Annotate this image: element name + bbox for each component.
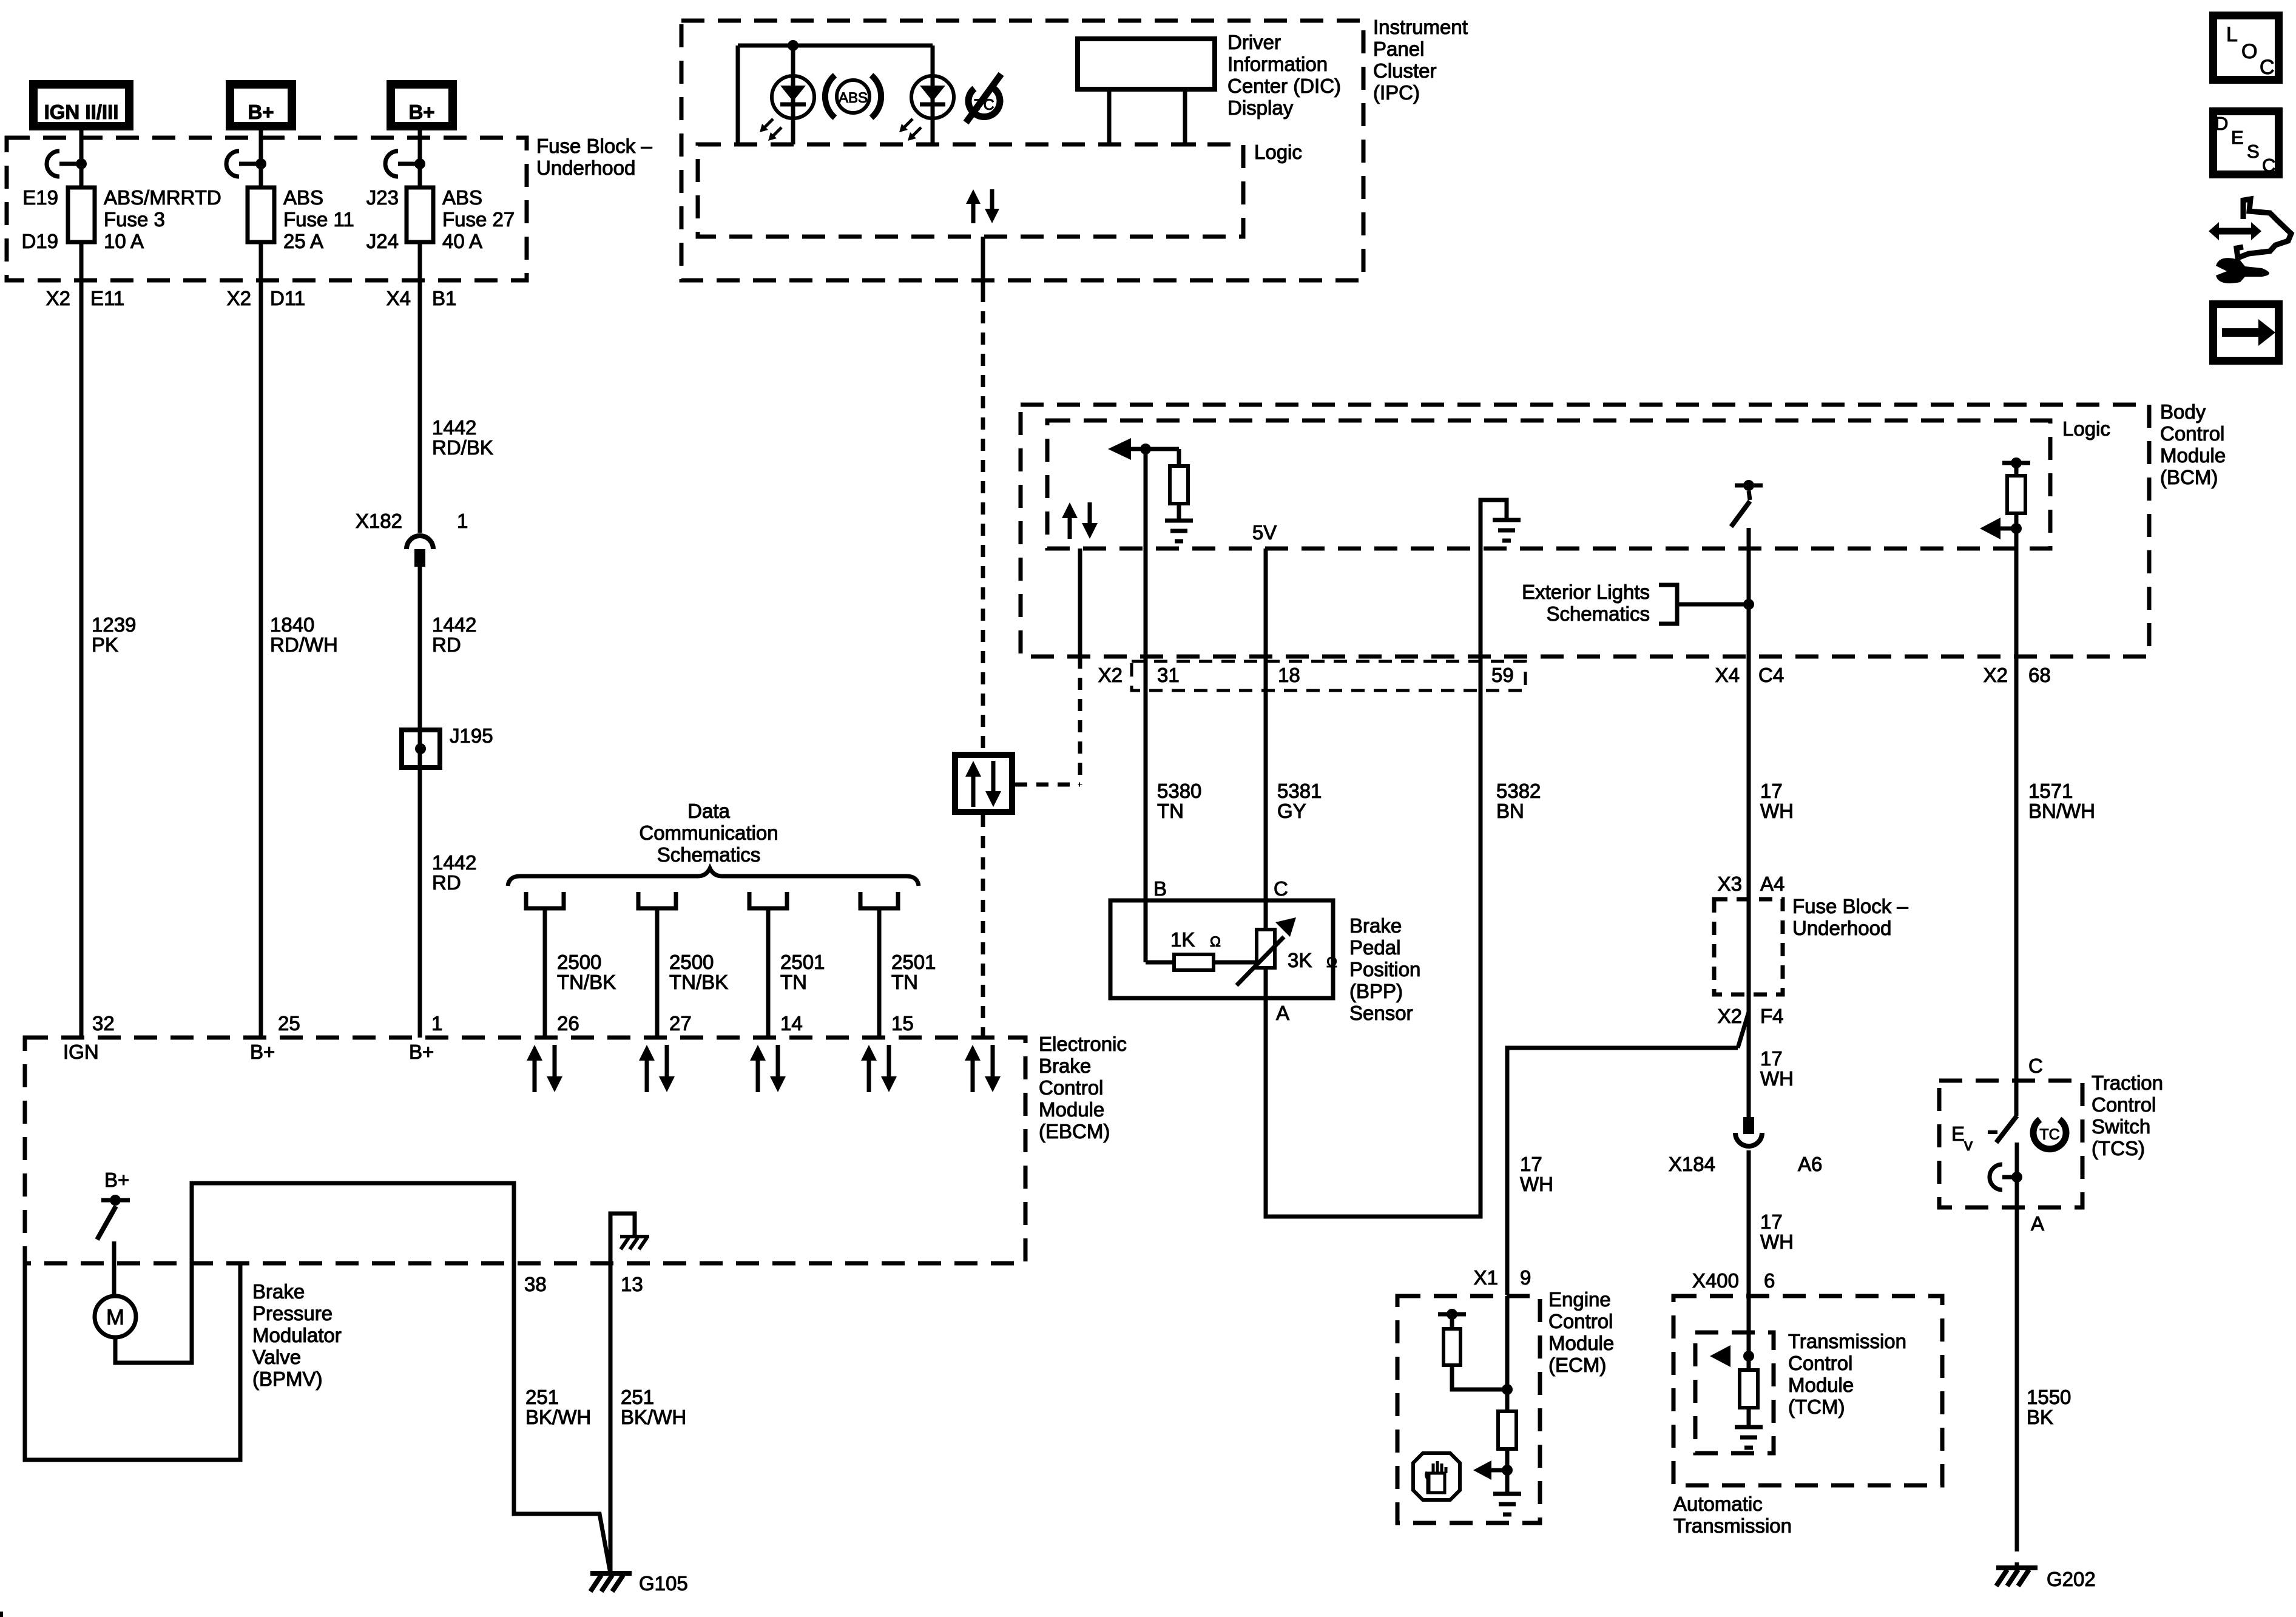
svg-text:Pedal: Pedal: [1349, 936, 1400, 959]
svg-text:2500: 2500: [669, 951, 714, 973]
svg-text:Control: Control: [1548, 1310, 1613, 1332]
svg-text:Valve: Valve: [252, 1346, 301, 1368]
svg-text:B: B: [1153, 877, 1167, 900]
svg-text:Electronic: Electronic: [1039, 1033, 1127, 1055]
svg-text:13: 13: [621, 1273, 643, 1295]
svg-text:Pressure: Pressure: [252, 1302, 333, 1325]
svg-text:D: D: [2215, 113, 2228, 134]
svg-text:X4: X4: [1715, 664, 1740, 686]
svg-text:1K: 1K: [1170, 928, 1195, 951]
svg-text:1239: 1239: [92, 613, 136, 636]
svg-text:1840: 1840: [270, 613, 314, 636]
svg-text:25: 25: [278, 1012, 300, 1035]
svg-text:Fuse Block –: Fuse Block –: [1792, 895, 1908, 917]
svg-text:D19: D19: [21, 230, 58, 252]
svg-text:17: 17: [1760, 780, 1783, 802]
svg-text:10 A: 10 A: [104, 230, 144, 252]
svg-text:L: L: [2226, 23, 2238, 46]
svg-text:Control: Control: [1788, 1352, 1852, 1374]
svg-text:E11: E11: [90, 287, 124, 309]
svg-text:X2: X2: [1718, 1005, 1742, 1027]
svg-text:Panel: Panel: [1373, 38, 1424, 60]
svg-text:Logic: Logic: [1254, 141, 1302, 163]
svg-text:Logic: Logic: [2062, 417, 2110, 440]
svg-text:Module: Module: [1788, 1374, 1854, 1396]
svg-text:1442: 1442: [432, 416, 476, 439]
svg-text:C: C: [1274, 877, 1288, 900]
svg-text:X182: X182: [356, 510, 402, 532]
svg-text:3K: 3K: [1288, 949, 1312, 971]
svg-text:(ECM): (ECM): [1548, 1354, 1606, 1376]
svg-text:G105: G105: [639, 1572, 688, 1595]
svg-text:5381: 5381: [1277, 780, 1322, 802]
svg-text:Center (DIC): Center (DIC): [1227, 75, 1341, 97]
svg-text:Module: Module: [1548, 1332, 1614, 1354]
svg-text:1442: 1442: [432, 851, 476, 874]
svg-text:WH: WH: [1760, 1067, 1794, 1090]
svg-text:G202: G202: [2047, 1568, 2096, 1590]
svg-text:ABS: ABS: [283, 186, 323, 209]
svg-text:BN/WH: BN/WH: [2028, 800, 2095, 822]
svg-text:B+: B+: [408, 101, 434, 123]
svg-text:GY: GY: [1277, 800, 1306, 822]
svg-text:(BPP): (BPP): [1349, 980, 1403, 1002]
svg-text:X2: X2: [1098, 664, 1123, 686]
svg-text:Brake: Brake: [252, 1280, 305, 1303]
svg-text:25 A: 25 A: [283, 230, 323, 252]
svg-text:O: O: [2241, 40, 2257, 63]
svg-text:Ω: Ω: [1326, 954, 1337, 971]
svg-text:Fuse Block –: Fuse Block –: [536, 135, 652, 157]
svg-text:2501: 2501: [780, 951, 825, 973]
svg-text:6: 6: [1764, 1269, 1775, 1292]
svg-text:1442: 1442: [432, 613, 476, 636]
svg-text:B+: B+: [248, 101, 274, 123]
svg-text:2500: 2500: [557, 951, 601, 973]
svg-text:RD: RD: [432, 633, 461, 656]
svg-text:Underhood: Underhood: [1792, 917, 1891, 939]
svg-text:B1: B1: [432, 287, 456, 309]
svg-text:Information: Information: [1227, 53, 1328, 75]
svg-text:ABS: ABS: [839, 90, 868, 106]
svg-text:TN: TN: [891, 971, 918, 993]
svg-text:ABS/MRRTD: ABS/MRRTD: [104, 186, 221, 209]
svg-text:B+: B+: [250, 1041, 275, 1063]
svg-text:A: A: [1276, 1002, 1289, 1024]
svg-text:J23: J23: [366, 186, 399, 209]
svg-text:Sensor: Sensor: [1349, 1002, 1413, 1024]
svg-text:X2: X2: [1984, 664, 2008, 686]
svg-text:(EBCM): (EBCM): [1039, 1120, 1110, 1143]
svg-text:X184: X184: [1669, 1153, 1715, 1175]
svg-text:E: E: [2231, 127, 2244, 148]
svg-text:Switch: Switch: [2092, 1115, 2150, 1138]
svg-text:Transmission: Transmission: [1673, 1514, 1792, 1537]
svg-text:A: A: [2031, 1212, 2044, 1235]
svg-text:32: 32: [92, 1012, 115, 1035]
svg-text:F4: F4: [1760, 1005, 1784, 1027]
svg-text:Brake: Brake: [1039, 1055, 1091, 1077]
svg-text:A6: A6: [1798, 1153, 1822, 1175]
svg-text:Display: Display: [1227, 96, 1294, 119]
svg-text:(BPMV): (BPMV): [252, 1368, 323, 1390]
svg-text:X400: X400: [1692, 1269, 1739, 1292]
svg-text:17: 17: [1760, 1210, 1783, 1233]
svg-text:Data: Data: [687, 800, 730, 822]
svg-text:17: 17: [1760, 1047, 1783, 1070]
svg-text:Modulator: Modulator: [252, 1324, 342, 1346]
svg-text:Driver: Driver: [1227, 31, 1281, 53]
svg-text:TN: TN: [1157, 800, 1184, 822]
svg-text:Module: Module: [2160, 444, 2226, 467]
svg-text:WH: WH: [1520, 1173, 1553, 1195]
svg-text:Fuse 3: Fuse 3: [104, 208, 165, 231]
svg-text:J24: J24: [366, 230, 399, 252]
svg-text:14: 14: [780, 1012, 803, 1035]
svg-text:1550: 1550: [2027, 1386, 2071, 1408]
svg-text:17: 17: [1520, 1153, 1542, 1175]
svg-text:15: 15: [891, 1012, 914, 1035]
svg-text:Fuse 11: Fuse 11: [283, 208, 354, 231]
svg-text:27: 27: [669, 1012, 692, 1035]
svg-text:Control: Control: [2092, 1093, 2156, 1116]
svg-text:1: 1: [431, 1012, 442, 1035]
svg-text:(TCM): (TCM): [1788, 1396, 1845, 1418]
svg-text:Engine: Engine: [1548, 1288, 1611, 1311]
svg-text:IGN: IGN: [63, 1041, 99, 1063]
svg-text:BK: BK: [2027, 1406, 2053, 1428]
svg-text:Communication: Communication: [639, 822, 778, 844]
svg-text:v: v: [1964, 1135, 1973, 1154]
svg-text:Control: Control: [1039, 1076, 1103, 1099]
svg-text:(IPC): (IPC): [1373, 81, 1420, 104]
svg-text:(TCS): (TCS): [2092, 1137, 2145, 1160]
svg-text:Control: Control: [2160, 422, 2224, 445]
svg-text:5382: 5382: [1496, 780, 1541, 802]
svg-text:X3: X3: [1718, 873, 1742, 895]
svg-text:Traction: Traction: [2092, 1072, 2163, 1094]
svg-text:Instrument: Instrument: [1373, 16, 1468, 38]
svg-text:Brake: Brake: [1349, 914, 1402, 937]
svg-text:40 A: 40 A: [442, 230, 482, 252]
svg-text:ABS: ABS: [442, 186, 482, 209]
svg-text:251: 251: [525, 1386, 559, 1408]
svg-text:Body: Body: [2160, 400, 2206, 423]
svg-text:TN: TN: [780, 971, 807, 993]
svg-text:BK/WH: BK/WH: [525, 1406, 591, 1428]
svg-text:X2: X2: [227, 287, 251, 309]
svg-text:J195: J195: [450, 724, 493, 747]
svg-text:X1: X1: [1474, 1266, 1498, 1289]
svg-text:Automatic: Automatic: [1673, 1493, 1763, 1515]
svg-text:TN/BK: TN/BK: [669, 971, 728, 993]
svg-text:RD/BK: RD/BK: [432, 436, 493, 459]
svg-text:31: 31: [1157, 664, 1180, 686]
svg-text:WH: WH: [1760, 800, 1794, 822]
svg-text:S: S: [2247, 141, 2260, 162]
svg-text:X4: X4: [387, 287, 411, 309]
svg-text:Schematics: Schematics: [657, 843, 761, 866]
svg-text:E: E: [1951, 1122, 1965, 1145]
svg-text:Position: Position: [1349, 958, 1420, 981]
svg-text:Exterior Lights: Exterior Lights: [1522, 581, 1650, 603]
svg-text:M: M: [106, 1305, 124, 1329]
svg-text:251: 251: [621, 1386, 654, 1408]
svg-text:WH: WH: [1760, 1230, 1794, 1253]
svg-text:2501: 2501: [891, 951, 936, 973]
svg-text:PK: PK: [92, 633, 118, 656]
svg-text:1: 1: [457, 510, 468, 532]
svg-text:B+: B+: [104, 1169, 129, 1191]
svg-text:C: C: [2260, 56, 2275, 79]
svg-text:Schematics: Schematics: [1546, 603, 1650, 625]
svg-text:Module: Module: [1039, 1098, 1104, 1121]
svg-text:Fuse 27: Fuse 27: [442, 208, 515, 231]
svg-text:(BCM): (BCM): [2160, 466, 2218, 488]
svg-text:X2: X2: [46, 287, 70, 309]
svg-text:C: C: [2028, 1055, 2043, 1077]
svg-text:68: 68: [2028, 664, 2051, 686]
svg-text:RD: RD: [432, 871, 461, 894]
svg-text:BN: BN: [1496, 800, 1524, 822]
svg-text:TC: TC: [2039, 1126, 2059, 1143]
svg-text:26: 26: [557, 1012, 579, 1035]
svg-text:18: 18: [1278, 664, 1300, 686]
svg-text:38: 38: [524, 1273, 547, 1295]
svg-text:Ω: Ω: [1210, 934, 1221, 950]
svg-text:RD/WH: RD/WH: [270, 633, 338, 656]
svg-text:A4: A4: [1760, 873, 1784, 895]
svg-text:B+: B+: [409, 1041, 434, 1063]
svg-text:5380: 5380: [1157, 780, 1201, 802]
svg-text:Cluster: Cluster: [1373, 59, 1437, 82]
svg-text:Transmission: Transmission: [1788, 1330, 1906, 1352]
svg-text:IGN II/III: IGN II/III: [44, 101, 119, 123]
svg-text:5V: 5V: [1252, 521, 1277, 544]
svg-text:TN/BK: TN/BK: [557, 971, 616, 993]
svg-text:9: 9: [1520, 1266, 1531, 1289]
svg-text:C4: C4: [1758, 664, 1784, 686]
svg-text:BK/WH: BK/WH: [621, 1406, 686, 1428]
svg-text:D11: D11: [270, 287, 305, 309]
svg-text:59: 59: [1491, 664, 1514, 686]
svg-text:1571: 1571: [2028, 780, 2073, 802]
svg-text:Underhood: Underhood: [536, 157, 635, 179]
svg-text:C: C: [2262, 155, 2275, 176]
svg-text:E19: E19: [22, 186, 58, 209]
